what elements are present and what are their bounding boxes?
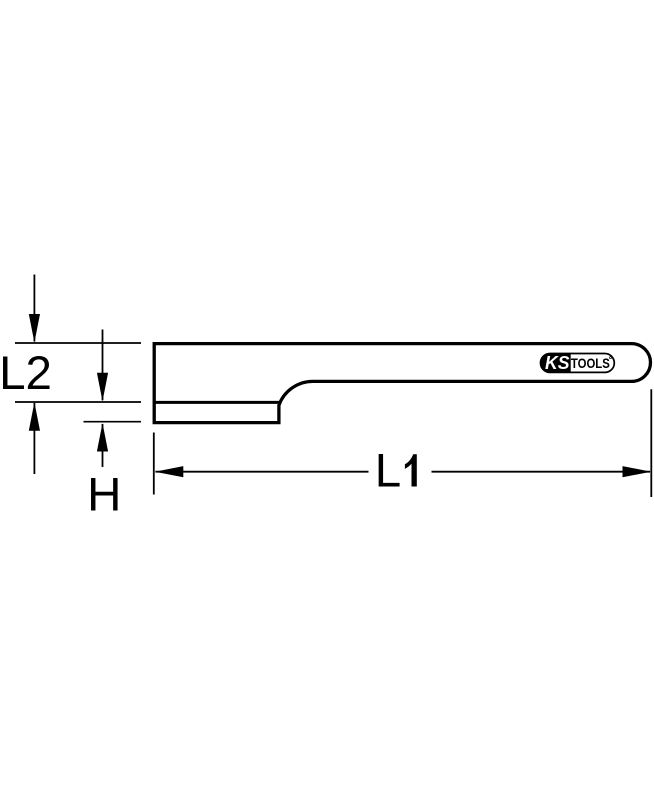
tool blade step line	[154, 401, 279, 404]
extension line top	[15, 342, 141, 344]
extension line L1 right	[650, 389, 652, 497]
dimension line L1 right segment	[432, 471, 651, 473]
dimension H lower arrow	[97, 423, 108, 467]
dimension line L1 left arrowhead	[155, 466, 184, 477]
KS Tools logo	[541, 352, 615, 373]
dimension H upper arrow	[97, 330, 108, 402]
svg-text:L: L	[375, 445, 401, 498]
dimension L2 lower arrow	[29, 402, 40, 474]
svg-text:TOOLS: TOOLS	[571, 355, 610, 371]
svg-text:L2: L2	[0, 347, 52, 400]
extension line bottom	[84, 421, 142, 423]
svg-text:KS: KS	[545, 352, 570, 373]
dimension L2 upper arrow	[29, 275, 40, 343]
dimension line L1 right arrowhead	[623, 466, 652, 477]
extension line L1 left	[153, 433, 155, 495]
tool outline	[154, 344, 650, 423]
dimension line L1 left segment	[156, 471, 369, 473]
svg-text:H: H	[87, 469, 121, 522]
extension line middle	[15, 401, 141, 403]
